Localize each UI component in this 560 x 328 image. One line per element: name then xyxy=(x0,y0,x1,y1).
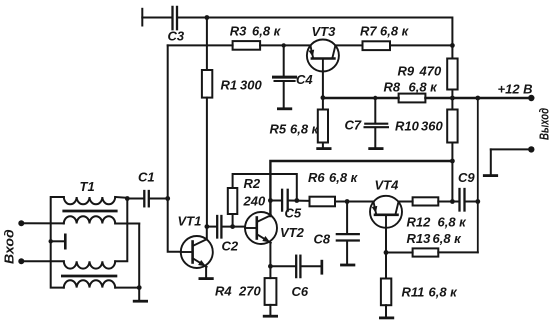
wire C9 column xyxy=(477,98,479,252)
resistor R7 xyxy=(363,41,391,50)
svg-text:R8: R8 xyxy=(384,80,401,95)
svg-text:6,8 к: 6,8 к xyxy=(380,24,410,39)
node R9/R10 junction xyxy=(450,96,455,101)
wire R10 top xyxy=(451,98,453,110)
wire R12 to C9 xyxy=(438,201,458,203)
node A junction xyxy=(205,15,210,20)
svg-text:C8: C8 xyxy=(314,232,331,247)
capacitor C7 xyxy=(365,98,388,147)
wire C1 right xyxy=(150,198,168,200)
svg-text:360: 360 xyxy=(421,119,443,134)
terminal input lower xyxy=(18,258,24,264)
capacitor C1 xyxy=(143,191,145,206)
svg-text:240: 240 xyxy=(243,194,266,209)
svg-text:R11: R11 xyxy=(402,285,425,300)
input terminal bar top-left xyxy=(141,9,143,26)
wire C3 to node A xyxy=(178,17,207,19)
T1 core bar 2 xyxy=(62,275,116,278)
ground below output xyxy=(483,174,498,177)
svg-text:C1: C1 xyxy=(138,170,155,185)
svg-text:C5: C5 xyxy=(285,206,302,221)
svg-text:VT4: VT4 xyxy=(375,178,400,193)
wire rail2 VT2 collector xyxy=(270,161,452,216)
svg-text:6,8 к: 6,8 к xyxy=(429,285,459,300)
wire C5 left xyxy=(270,200,281,202)
transistor VT4 xyxy=(370,196,402,228)
svg-text:6,8 к: 6,8 к xyxy=(290,122,320,137)
svg-text:T1: T1 xyxy=(80,179,95,194)
resistor R1 xyxy=(202,70,212,98)
wire R7 to node B xyxy=(390,44,452,46)
resistor R10 xyxy=(447,110,457,143)
wire VT3 base down xyxy=(322,72,324,99)
wire input lower to winding 3 xyxy=(21,260,64,262)
svg-text:C6: C6 xyxy=(292,284,309,299)
ground below C7 xyxy=(368,147,383,150)
capacitor C4 xyxy=(274,45,296,107)
wire top rail xyxy=(207,18,453,46)
node C4 junction xyxy=(282,43,286,47)
wire VT3 collector to R7 xyxy=(335,44,362,46)
node VT4 base junction xyxy=(384,250,389,255)
wire VT2 emitter down xyxy=(269,243,271,266)
svg-text:R6: R6 xyxy=(308,170,325,185)
wire input upper to winding 2 xyxy=(21,222,64,224)
svg-text:Вход: Вход xyxy=(2,229,16,264)
T1 screen tap wire xyxy=(51,240,64,242)
T1 winding 1 xyxy=(64,197,115,204)
resistor R8 xyxy=(399,94,426,103)
wire rail to R3 xyxy=(168,44,233,46)
ground below R5 xyxy=(316,147,331,150)
transformer T1 left rail xyxy=(51,197,64,288)
ground below VT1 xyxy=(199,277,214,280)
ground below T1 xyxy=(133,300,148,303)
svg-text:R1: R1 xyxy=(221,78,238,93)
wire VT1 collector up xyxy=(206,227,208,240)
wire winding2 right to ground rail xyxy=(115,223,139,225)
wire R4 bottom xyxy=(269,305,271,315)
node B junction xyxy=(450,43,455,48)
svg-text:6,8 к: 6,8 к xyxy=(252,24,282,39)
node C9 right junction xyxy=(475,199,480,204)
wire C6 right xyxy=(302,265,321,267)
wire vertical C3-rail to VT1 base xyxy=(168,45,181,251)
resistor R9 xyxy=(447,59,457,90)
terminal output xyxy=(528,146,534,152)
resistor R4 xyxy=(265,278,277,305)
T1 winding 4 xyxy=(64,280,115,287)
resistor R12 xyxy=(413,197,439,205)
resistor R11 xyxy=(381,279,391,306)
svg-text:R13: R13 xyxy=(407,231,432,246)
node C6 junction xyxy=(268,264,273,269)
wire R6 to VT4 xyxy=(335,201,374,203)
wire R3 to VT3 xyxy=(260,44,311,46)
svg-text:VT2: VT2 xyxy=(280,225,305,240)
capacitor C6 xyxy=(295,256,297,277)
wire VT4 base down xyxy=(385,228,387,253)
capacitor C2 xyxy=(216,216,218,238)
wire R13 right xyxy=(438,251,478,253)
svg-text:300: 300 xyxy=(240,78,262,93)
C6 chassis bar xyxy=(321,260,324,275)
node rail2 junction xyxy=(450,159,455,164)
T1 winding 3 xyxy=(64,261,115,268)
capacitor C5 xyxy=(281,190,283,211)
wire R13 row xyxy=(386,252,413,254)
ground below C8 xyxy=(340,264,355,267)
T1 screen chassis bar xyxy=(64,234,67,250)
wire R2 bottom lead xyxy=(232,214,234,227)
node C7 junction xyxy=(373,96,377,100)
node VT1 collector / C2 junction xyxy=(205,224,210,229)
svg-text:VT1: VT1 xyxy=(178,214,202,229)
svg-text:C2: C2 xyxy=(222,239,239,254)
transistor VT1 xyxy=(181,236,213,268)
wire rail w1-w3 xyxy=(115,199,127,262)
svg-text:R3: R3 xyxy=(230,24,247,39)
wire R4 top xyxy=(269,266,271,278)
wire C5 right xyxy=(289,200,310,202)
svg-text:Выход: Выход xyxy=(538,108,552,140)
svg-text:6,8 к: 6,8 к xyxy=(438,215,468,230)
capacitor C8 xyxy=(337,202,359,264)
wire C1 left xyxy=(127,198,143,200)
svg-text:6,8 к: 6,8 к xyxy=(433,231,463,246)
node C9 left junction xyxy=(450,199,455,204)
transistor VT3 xyxy=(307,40,339,72)
svg-text:6,8 к: 6,8 к xyxy=(329,170,359,185)
wire T1 ground rail xyxy=(138,224,140,301)
svg-text:R4: R4 xyxy=(215,284,232,299)
node base junction xyxy=(321,95,326,100)
wire VT1 emitter down xyxy=(205,267,207,277)
wire C2 left xyxy=(207,226,216,228)
T1 core bar 1 xyxy=(64,210,116,213)
resistor R13 xyxy=(413,248,439,256)
svg-text:C4: C4 xyxy=(296,72,313,87)
wire R11 bottom xyxy=(385,305,387,316)
node C1 right junction xyxy=(165,196,170,201)
wire winding1 right to C1 xyxy=(115,196,127,199)
wire R2 top to C5/R6 node xyxy=(233,174,297,201)
resistor R6 xyxy=(310,197,336,207)
wire VT4 collector to R12 xyxy=(399,201,413,203)
resistor R5 xyxy=(318,110,328,143)
ground below R11 xyxy=(379,317,394,320)
node screen junction xyxy=(49,239,53,243)
svg-text:C3: C3 xyxy=(168,29,185,44)
ground below R4 xyxy=(263,315,278,318)
node C5 left junction xyxy=(268,198,273,203)
wire output xyxy=(491,148,532,150)
wire R10 bottom to C9 node xyxy=(451,143,453,202)
ground below C4 xyxy=(277,107,292,110)
svg-text:R2: R2 xyxy=(244,176,261,191)
wire node B to R9 xyxy=(451,45,453,58)
svg-text:270: 270 xyxy=(238,284,261,299)
node C9 column junction xyxy=(475,96,480,101)
svg-text:R7: R7 xyxy=(360,24,377,39)
node w4 junction xyxy=(137,285,142,290)
node C8 junction xyxy=(345,199,350,204)
node C5/R6/R2 junction xyxy=(294,198,299,203)
wire R8 to +12V terminal xyxy=(425,97,531,99)
svg-text:R10: R10 xyxy=(395,119,420,134)
svg-text:470: 470 xyxy=(419,64,442,79)
svg-text:+12 В: +12 В xyxy=(498,82,533,97)
svg-text:R5: R5 xyxy=(270,122,287,137)
wire R5 top xyxy=(322,98,324,110)
node C1 left junction xyxy=(125,196,130,201)
transistor VT2 xyxy=(245,212,277,244)
wire C2 to VT2 base xyxy=(223,226,246,228)
wire output to ground xyxy=(490,149,492,174)
resistor R2 xyxy=(228,188,238,214)
svg-text:VT3: VT3 xyxy=(312,24,337,39)
capacitor C9 xyxy=(458,189,460,211)
wire R11 top xyxy=(385,253,387,279)
node R2 bottom junction xyxy=(230,224,235,229)
svg-text:C9: C9 xyxy=(458,170,475,185)
resistor R3 xyxy=(233,41,261,50)
svg-text:R12: R12 xyxy=(407,215,432,230)
wire winding4 right xyxy=(115,287,139,289)
wire terminal to C3 xyxy=(142,17,171,19)
wire bias rail to R8 xyxy=(323,97,399,99)
wire R5 bottom xyxy=(322,143,324,148)
svg-text:6,8 к: 6,8 к xyxy=(409,80,439,95)
wire R9 to +12V rail xyxy=(451,90,453,99)
capacitor C3 xyxy=(171,7,173,29)
T1 winding 2 xyxy=(64,216,115,223)
wire R1 to VT1 collector node xyxy=(206,98,208,227)
wire C6 left xyxy=(270,265,295,267)
wire node A down to R1 xyxy=(206,18,208,71)
svg-text:C7: C7 xyxy=(345,118,362,133)
wire C9 right xyxy=(466,201,478,203)
svg-text:R9: R9 xyxy=(398,64,415,79)
terminal input upper xyxy=(18,220,24,226)
terminal +12 V xyxy=(528,95,534,101)
